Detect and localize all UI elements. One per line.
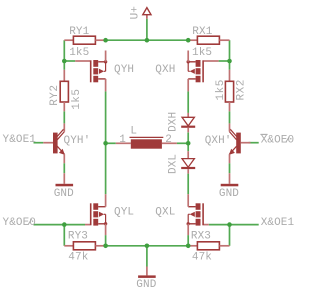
- svg-text:RY1: RY1: [69, 26, 89, 38]
- svg-text:1k5: 1k5: [69, 47, 89, 59]
- svg-text:QXH': QXH': [205, 135, 232, 147]
- svg-text:QYH': QYH': [64, 135, 91, 147]
- svg-text:L: L: [130, 126, 137, 138]
- svg-text:GND: GND: [136, 279, 156, 290]
- svg-text:RY3: RY3: [68, 230, 88, 242]
- svg-text:1k5: 1k5: [192, 47, 212, 59]
- svg-text:GND: GND: [54, 188, 74, 200]
- svg-text:47k: 47k: [192, 251, 212, 263]
- svg-text:2: 2: [165, 134, 172, 146]
- svg-text:Y&OE1: Y&OE1: [3, 134, 37, 146]
- svg-text:1k5: 1k5: [215, 79, 227, 100]
- svg-text:QXL: QXL: [155, 206, 175, 218]
- svg-text:QYL: QYL: [114, 206, 134, 218]
- svg-text:DXH: DXH: [168, 112, 180, 132]
- svg-text:DXL: DXL: [168, 154, 180, 174]
- svg-text:RX2: RX2: [236, 79, 248, 100]
- svg-text:47k: 47k: [68, 251, 88, 263]
- svg-text:1: 1: [119, 134, 126, 146]
- svg-text:U+: U+: [129, 6, 141, 19]
- svg-text:GND: GND: [219, 188, 239, 200]
- svg-text:X&OE1: X&OE1: [261, 217, 295, 229]
- svg-text:RY2: RY2: [49, 84, 61, 105]
- svg-text:QXH: QXH: [155, 64, 175, 76]
- svg-text:1k5: 1k5: [71, 88, 83, 109]
- svg-text:RX3: RX3: [191, 230, 211, 242]
- svg-text:RX1: RX1: [192, 26, 212, 38]
- svg-text:QYH: QYH: [114, 64, 134, 76]
- svg-text:X&OE0: X&OE0: [261, 134, 295, 146]
- svg-text:Y&OE0: Y&OE0: [3, 217, 37, 229]
